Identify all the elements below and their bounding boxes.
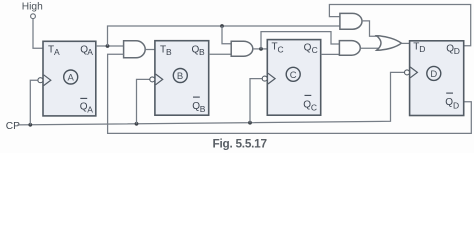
wire CP bus <box>18 72 405 125</box>
svg-text:B: B <box>166 47 172 57</box>
flip-flop U-C box <box>267 40 320 116</box>
svg-text:C: C <box>290 70 297 81</box>
junction CP-C <box>248 121 252 125</box>
node High terminal <box>22 2 43 19</box>
or-gate G5 <box>377 36 402 50</box>
svg-text:B: B <box>200 104 206 114</box>
svg-text:C: C <box>312 45 318 55</box>
wire Q_C to G4 <box>321 53 340 55</box>
svg-text:Q: Q <box>445 97 453 108</box>
flip-flop U-A box <box>43 41 96 116</box>
clock pin FF D <box>405 67 418 78</box>
wire Q_A output <box>96 45 124 47</box>
clock pin FF B <box>150 74 163 85</box>
svg-text:A: A <box>87 47 93 57</box>
svg-text:A: A <box>68 73 75 84</box>
wire Q_D feedback to G3 top input <box>329 5 470 46</box>
svg-text:D: D <box>430 69 437 80</box>
svg-text:C: C <box>311 103 317 113</box>
wire Q_A bus to gates <box>108 26 340 46</box>
svg-text:B: B <box>177 71 183 82</box>
and-gate G2 <box>231 41 253 56</box>
flip-flop U-D box <box>410 41 464 116</box>
svg-text:High: High <box>22 2 43 13</box>
svg-text:B: B <box>199 47 205 57</box>
clock pin FF C <box>262 73 275 84</box>
wire High to T_A <box>33 19 43 48</box>
svg-text:A: A <box>54 47 60 57</box>
svg-text:D: D <box>419 44 425 54</box>
wire CP to clock A <box>30 80 38 125</box>
and-gate G1 <box>124 41 146 58</box>
wire OR out to T_D <box>402 42 410 44</box>
svg-text:A: A <box>87 105 93 115</box>
wire G1 out to T_B <box>145 49 155 51</box>
wire G4 out to OR <box>360 47 378 49</box>
wire G2 out to T_C <box>253 48 267 50</box>
junction Q_A <box>106 44 110 48</box>
junction Q_A bus to AND2 <box>220 24 224 28</box>
and-gate G4 <box>339 41 360 56</box>
and-gate G3 <box>340 13 362 29</box>
svg-text:C: C <box>278 45 284 55</box>
svg-text:Fig. 5.5.17: Fig. 5.5.17 <box>213 136 268 150</box>
wire Qbar_D feedback to G1 <box>108 54 472 133</box>
wire CP to clock C <box>250 79 262 123</box>
svg-text:CP: CP <box>6 121 20 132</box>
wire bus down to AND2 top input <box>222 26 231 44</box>
wire Q_B to G2 <box>209 53 232 55</box>
wire G2 out up to G4 <box>261 32 339 49</box>
svg-text:D: D <box>453 100 459 110</box>
svg-text:D: D <box>454 46 460 56</box>
flip-flop U-B box <box>155 41 209 116</box>
junction CP-B <box>135 122 139 126</box>
svg-text:Q: Q <box>304 42 312 53</box>
clock pin FF A <box>38 75 51 86</box>
wire G3 out to OR <box>362 21 378 36</box>
junction CP-A <box>28 123 32 127</box>
junction G2 out <box>259 47 263 51</box>
wire CP to clock B <box>137 79 150 123</box>
